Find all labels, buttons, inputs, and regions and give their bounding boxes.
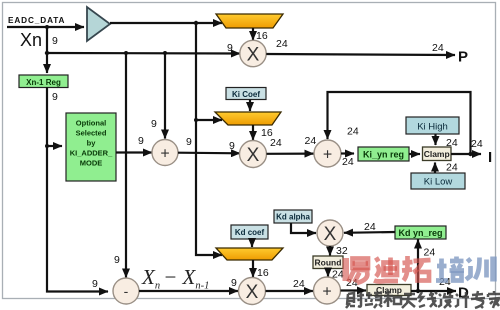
shifter trapezoid Ki (215, 112, 281, 125)
svg-text:KI_ADDER_: KI_ADDER_ (70, 149, 113, 158)
wire I output (451, 153, 481, 155)
watermark red characters (349, 256, 431, 283)
clamp Kd (367, 285, 411, 296)
node Ki shifter tap (194, 118, 198, 122)
svg-text:-: - (124, 283, 129, 299)
svg-text:9: 9 (229, 140, 235, 152)
wire Optional to adder (116, 151, 152, 153)
svg-text:24: 24 (342, 156, 354, 168)
wire Ki feedback loop (328, 92, 471, 154)
shifter trapezoid top P (216, 14, 283, 28)
svg-text:Optional: Optional (76, 119, 106, 128)
svg-text:Round: Round (315, 258, 342, 268)
svg-text:9: 9 (138, 135, 144, 147)
node junction feedback (468, 152, 472, 156)
subtractor S1 (113, 278, 139, 304)
svg-text:by: by (87, 139, 97, 148)
svg-text:I: I (488, 149, 492, 166)
multiplier X1 (240, 40, 266, 66)
wire Ki Coef down (249, 100, 251, 112)
svg-text:24: 24 (432, 42, 444, 54)
round box (313, 256, 343, 269)
wire Ki adder out (341, 152, 354, 154)
wire Ki Low up (434, 163, 436, 174)
svg-text:Kd yn_reg: Kd yn_reg (398, 228, 442, 238)
node optional tap (45, 144, 49, 148)
watermark blue characters (436, 257, 494, 282)
wire shifter1 out (252, 28, 254, 40)
wire Kd coef down (251, 239, 253, 247)
svg-text:D: D (458, 285, 469, 302)
svg-text:+: + (322, 284, 331, 301)
svg-text:MODE: MODE (80, 159, 103, 168)
watermark char di (374, 258, 398, 282)
coef Kd coef box (231, 225, 268, 239)
svg-text:9: 9 (114, 254, 120, 266)
buffer U1 (87, 7, 110, 41)
node junction x196 top (194, 21, 198, 25)
adder A1 (152, 140, 178, 166)
adder A2 Ki (314, 140, 341, 167)
watermark char tuo (402, 256, 431, 281)
coef Kd alpha box (274, 210, 312, 223)
watermark char pin (365, 292, 382, 308)
svg-text:24: 24 (293, 278, 305, 290)
wire Kd X out (266, 290, 314, 292)
svg-text:24: 24 (471, 138, 483, 150)
svg-text:24: 24 (347, 126, 359, 138)
wire x165 down to adder top (164, 53, 166, 139)
svg-text:24: 24 (305, 135, 317, 147)
svg-text:9: 9 (92, 278, 98, 290)
watermark char he (384, 292, 401, 307)
wire vertical x196 to Kd shifter (196, 23, 222, 255)
svg-text:24: 24 (446, 137, 458, 149)
wire Kd adder to clamp (341, 289, 367, 291)
svg-text:9: 9 (227, 42, 233, 54)
watermark char jia (488, 291, 500, 308)
wire Xn-1 down and to subtractor (47, 87, 108, 292)
wire adder to Ki multiplier (178, 152, 240, 155)
wire shifter3 out (252, 260, 254, 277)
register Kd yn_reg (395, 226, 446, 239)
svg-text:24: 24 (446, 162, 458, 174)
wire branch to Optional box (47, 145, 62, 147)
watermark red logo bar (343, 258, 350, 281)
coef Ki Low box (411, 173, 465, 189)
wire X4 down to Round (329, 246, 331, 256)
mux Optional box (66, 113, 116, 181)
svg-text:Xn: Xn (20, 30, 42, 50)
svg-text:16: 16 (257, 267, 269, 279)
coef Ki High box (406, 117, 459, 134)
svg-text:Ki Low: Ki Low (424, 177, 453, 188)
wire Xn down to Xn-1 Reg (46, 27, 48, 73)
wire Xn bus y53 (47, 52, 240, 55)
wire Kd feedback up to reg (417, 240, 419, 292)
watermark char ji (455, 292, 469, 308)
clamp Ki (423, 147, 452, 161)
node Xn branch (45, 25, 49, 29)
svg-text:+: + (323, 147, 332, 164)
svg-text:X: X (324, 224, 337, 245)
watermark char yi (349, 259, 370, 284)
wire reg to clamp (409, 153, 420, 155)
watermark char she2 (438, 293, 452, 308)
watermark char tian (402, 294, 417, 308)
svg-text:9: 9 (52, 91, 58, 103)
wire P output (266, 54, 455, 55)
wire Kd alpha to X4 (291, 223, 316, 233)
node adder tap (163, 51, 167, 55)
svg-text:X: X (247, 45, 260, 66)
node subtractor tap (124, 51, 128, 55)
wire shifter2 out (252, 125, 254, 140)
wire branch to Ki shifter (196, 119, 222, 121)
svg-text:9: 9 (52, 35, 58, 47)
svg-text:Clamp: Clamp (424, 149, 450, 159)
wire EADC input (7, 26, 84, 28)
svg-text:X: X (246, 282, 259, 303)
svg-text:24: 24 (276, 38, 288, 50)
svg-text:24: 24 (364, 221, 376, 233)
svg-text:+: + (160, 146, 169, 163)
svg-text:16: 16 (256, 30, 268, 42)
watermark char she (346, 292, 364, 308)
svg-text:P: P (458, 49, 468, 66)
svg-text:Xn-1 Reg: Xn-1 Reg (26, 78, 61, 87)
svg-text:32: 32 (336, 245, 348, 257)
register Xn-1 Reg (19, 75, 68, 88)
svg-text:Ki_yn reg: Ki_yn reg (363, 150, 404, 160)
wire x126 down to subtractor top (125, 53, 127, 278)
wire Round down to adder (327, 269, 329, 277)
svg-text:Kd alpha: Kd alpha (276, 213, 310, 222)
shifter trapezoid Kd (216, 248, 283, 260)
svg-text:Kd coef: Kd coef (235, 228, 265, 237)
multiplier X4 alpha (317, 220, 343, 246)
svg-text:24: 24 (424, 247, 436, 259)
multiplier X2 Ki (240, 141, 267, 168)
watermark char xian (419, 292, 437, 307)
wire buffer output to shifter1 (110, 22, 222, 24)
svg-text:Selected: Selected (76, 129, 107, 138)
svg-text:24: 24 (270, 137, 282, 149)
svg-text:9: 9 (151, 118, 157, 130)
wire Ki X out to adder (267, 153, 314, 155)
watermark char pei (436, 257, 464, 281)
watermark gray text row (346, 291, 500, 308)
wire Kd yn_reg to X4 (344, 231, 395, 234)
adder A3 Kd (314, 277, 341, 304)
coef Ki Coef box (226, 88, 266, 100)
wire D output (411, 290, 456, 292)
wire subtractor out (139, 290, 238, 292)
wire Ki High down (434, 134, 436, 145)
multiplier X3 Kd (239, 278, 266, 305)
svg-text:X: X (247, 145, 260, 166)
svg-text:EADC_DATA: EADC_DATA (8, 16, 65, 25)
watermark char xun (466, 257, 494, 282)
register Ki_yn reg (358, 147, 409, 161)
svg-text:Ki Coef: Ki Coef (232, 90, 260, 99)
node junction Kd feedback (416, 289, 420, 293)
svg-text:9: 9 (186, 136, 192, 148)
watermark char zhuan (471, 291, 485, 308)
svg-text:9: 9 (231, 277, 237, 289)
svg-text:Ki High: Ki High (417, 122, 448, 133)
node Xn bus tap (45, 51, 49, 55)
